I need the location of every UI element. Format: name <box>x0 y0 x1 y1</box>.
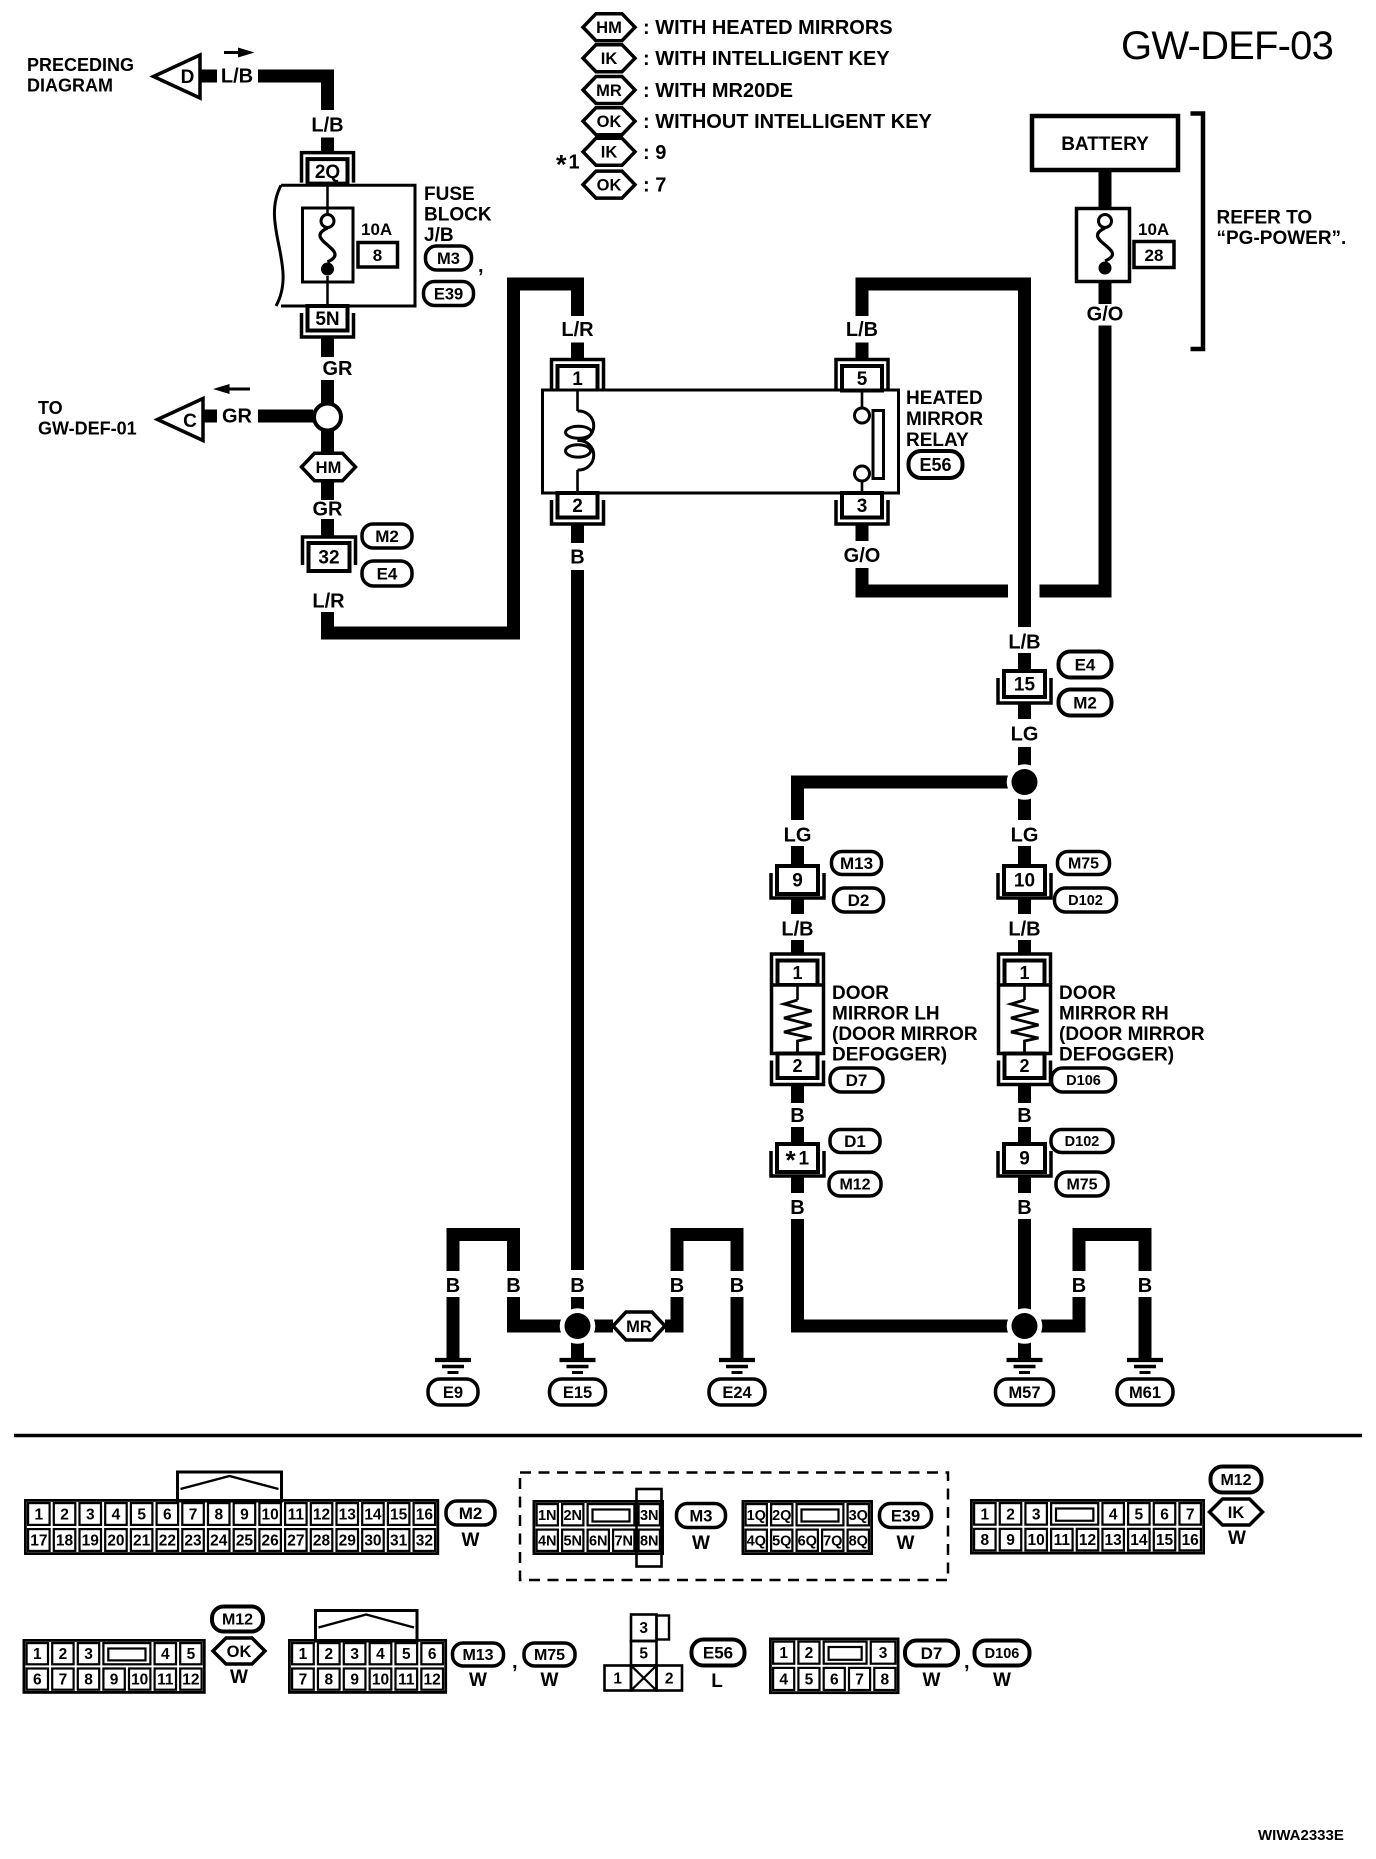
svg-text:M12: M12 <box>839 1177 870 1194</box>
svg-text:2: 2 <box>1006 1506 1015 1523</box>
svg-text:DEFOGGER): DEFOGGER) <box>832 1045 947 1066</box>
svg-text:M2: M2 <box>1073 694 1097 713</box>
svg-text:11: 11 <box>398 1672 415 1689</box>
svg-text:6: 6 <box>163 1507 172 1524</box>
svg-text:B: B <box>670 1275 684 1297</box>
svg-text:4: 4 <box>376 1646 385 1663</box>
svg-text:5Q: 5Q <box>772 1533 791 1549</box>
svg-text:8: 8 <box>214 1507 223 1524</box>
svg-text:D2: D2 <box>848 891 870 910</box>
svg-text:9: 9 <box>792 871 803 892</box>
svg-text:DIAGRAM: DIAGRAM <box>27 76 113 96</box>
svg-text:8: 8 <box>881 1671 890 1688</box>
svg-text:: 7: : 7 <box>643 175 666 197</box>
svg-text:D1: D1 <box>844 1132 866 1151</box>
svg-text:8Q: 8Q <box>849 1533 868 1549</box>
svg-text:14: 14 <box>1130 1532 1148 1549</box>
svg-text:10A: 10A <box>1138 220 1169 239</box>
svg-text:B: B <box>1072 1275 1086 1297</box>
svg-text:3: 3 <box>84 1646 93 1663</box>
svg-text:6: 6 <box>830 1671 839 1688</box>
svg-text:2: 2 <box>792 1056 802 1076</box>
svg-text:5: 5 <box>805 1671 814 1688</box>
svg-text:: WITHOUT INTELLIGENT KEY: : WITHOUT INTELLIGENT KEY <box>643 111 933 133</box>
svg-text:M2: M2 <box>459 1504 483 1523</box>
svg-text:1: 1 <box>35 1507 44 1524</box>
svg-text:G/O: G/O <box>844 545 881 567</box>
svg-text:12: 12 <box>313 1507 330 1524</box>
svg-text:: WITH HEATED MIRRORS: : WITH HEATED MIRRORS <box>643 17 893 39</box>
svg-text:M2: M2 <box>375 527 399 546</box>
svg-text:6: 6 <box>428 1646 437 1663</box>
svg-text:B: B <box>790 1197 804 1219</box>
svg-text:6: 6 <box>33 1672 42 1689</box>
svg-text:7N: 7N <box>614 1533 633 1549</box>
svg-text:L/B: L/B <box>1008 632 1040 654</box>
svg-text:(DOOR MIRROR: (DOOR MIRROR <box>832 1024 978 1045</box>
svg-text:,: , <box>512 1651 518 1673</box>
svg-text:MIRROR LH: MIRROR LH <box>832 1004 940 1025</box>
svg-text:GR: GR <box>222 406 253 428</box>
svg-text:L/B: L/B <box>846 319 878 341</box>
svg-text:LG: LG <box>784 825 812 847</box>
svg-text:OK: OK <box>597 113 622 131</box>
svg-text:7: 7 <box>189 1507 198 1524</box>
svg-text:10: 10 <box>131 1672 148 1689</box>
svg-text:MIRROR: MIRROR <box>906 409 983 430</box>
svg-text:12: 12 <box>424 1672 441 1689</box>
svg-text:: WITH INTELLIGENT KEY: : WITH INTELLIGENT KEY <box>643 48 890 70</box>
svg-text:4: 4 <box>161 1646 170 1663</box>
svg-text:3N: 3N <box>640 1508 659 1524</box>
svg-text:M57: M57 <box>1008 1384 1040 1402</box>
svg-text:D7: D7 <box>921 1644 943 1663</box>
svg-text:DOOR: DOOR <box>832 983 889 1004</box>
svg-text:22: 22 <box>159 1533 176 1550</box>
svg-text:L/B: L/B <box>781 919 813 941</box>
svg-text:5: 5 <box>1135 1506 1144 1523</box>
svg-text:11: 11 <box>1054 1532 1071 1549</box>
svg-text:16: 16 <box>416 1507 434 1524</box>
svg-text:B: B <box>570 1275 584 1297</box>
svg-text:M75: M75 <box>534 1647 565 1664</box>
svg-text:27: 27 <box>287 1533 304 1550</box>
svg-text:3: 3 <box>879 1645 888 1662</box>
svg-text:19: 19 <box>82 1533 100 1550</box>
svg-text:10A: 10A <box>361 220 392 239</box>
svg-text:E39: E39 <box>434 285 463 303</box>
svg-text:2: 2 <box>60 1507 69 1524</box>
svg-text:GR: GR <box>313 499 344 521</box>
svg-text:RELAY: RELAY <box>906 430 969 451</box>
svg-text:B: B <box>790 1275 804 1297</box>
svg-text:13: 13 <box>1105 1532 1123 1549</box>
svg-text:3: 3 <box>1032 1506 1041 1523</box>
svg-text:10: 10 <box>372 1672 389 1689</box>
svg-text:B: B <box>1017 1197 1031 1219</box>
svg-text:3: 3 <box>86 1507 95 1524</box>
svg-text:W: W <box>692 1533 710 1554</box>
svg-text:REFER TO: REFER TO <box>1217 208 1313 229</box>
svg-text:18: 18 <box>56 1533 74 1550</box>
svg-text:E15: E15 <box>563 1384 592 1402</box>
svg-text:1: 1 <box>799 1149 810 1170</box>
svg-text:10: 10 <box>262 1507 279 1524</box>
svg-text:4N: 4N <box>538 1533 557 1549</box>
svg-text:15: 15 <box>390 1507 408 1524</box>
svg-text:HM: HM <box>596 19 622 37</box>
svg-text:13: 13 <box>339 1507 357 1524</box>
svg-text:5: 5 <box>187 1646 196 1663</box>
svg-text:OK: OK <box>227 1643 252 1661</box>
svg-text:16: 16 <box>1182 1532 1200 1549</box>
svg-text:BATTERY: BATTERY <box>1061 134 1149 155</box>
svg-text:GR: GR <box>323 358 354 380</box>
svg-text:L/B: L/B <box>1008 919 1040 941</box>
svg-text:17: 17 <box>30 1533 47 1550</box>
svg-text:3Q: 3Q <box>849 1508 868 1524</box>
svg-text:9: 9 <box>1006 1532 1015 1549</box>
svg-text:2Q: 2Q <box>772 1508 791 1524</box>
svg-text:OK: OK <box>597 176 622 194</box>
svg-text:2Q: 2Q <box>315 162 340 183</box>
svg-text:10: 10 <box>1014 871 1035 892</box>
svg-text:5: 5 <box>137 1507 146 1524</box>
svg-text:2: 2 <box>665 1671 674 1688</box>
svg-text:2: 2 <box>805 1645 814 1662</box>
svg-text:32: 32 <box>416 1533 433 1550</box>
svg-text:6N: 6N <box>589 1533 608 1549</box>
svg-text:4: 4 <box>779 1671 788 1688</box>
svg-text:24: 24 <box>210 1533 228 1550</box>
svg-text:8: 8 <box>981 1532 990 1549</box>
svg-text:FUSE: FUSE <box>424 184 475 205</box>
svg-text:B: B <box>730 1275 744 1297</box>
svg-text:11: 11 <box>288 1507 305 1524</box>
svg-text:29: 29 <box>339 1533 357 1550</box>
svg-text:3: 3 <box>639 1620 648 1637</box>
svg-text:W: W <box>462 1530 480 1551</box>
svg-text:D102: D102 <box>1065 1134 1100 1150</box>
svg-text:HM: HM <box>316 459 342 477</box>
svg-text:L: L <box>711 1671 723 1692</box>
svg-text:W: W <box>1228 1528 1246 1549</box>
svg-text:D106: D106 <box>985 1646 1020 1662</box>
svg-text:15: 15 <box>1014 675 1036 696</box>
svg-text:D: D <box>181 67 195 88</box>
svg-text:LG: LG <box>1011 724 1039 746</box>
svg-text:20: 20 <box>107 1533 124 1550</box>
svg-text:7: 7 <box>855 1671 864 1688</box>
svg-text:W: W <box>469 1670 487 1691</box>
svg-text:IK: IK <box>601 144 618 162</box>
svg-text:M12: M12 <box>222 1612 253 1629</box>
svg-text:7Q: 7Q <box>823 1533 842 1549</box>
svg-text:9: 9 <box>350 1672 359 1689</box>
svg-text:28: 28 <box>313 1533 331 1550</box>
svg-text:1: 1 <box>779 1645 788 1662</box>
svg-text:8N: 8N <box>640 1533 659 1549</box>
svg-text:E9: E9 <box>443 1384 463 1402</box>
svg-text:E24: E24 <box>722 1384 752 1402</box>
svg-text:W: W <box>923 1670 941 1691</box>
svg-text:L/B: L/B <box>221 66 253 88</box>
svg-text:M3: M3 <box>690 1507 713 1525</box>
svg-text:5N: 5N <box>315 309 339 330</box>
svg-text:B: B <box>1017 1105 1031 1127</box>
svg-text:LG: LG <box>1011 825 1039 847</box>
svg-text:5N: 5N <box>563 1533 582 1549</box>
svg-text:1: 1 <box>33 1646 42 1663</box>
svg-text:MR: MR <box>596 82 622 100</box>
svg-text:6Q: 6Q <box>798 1533 817 1549</box>
svg-text:B: B <box>446 1275 460 1297</box>
svg-text:E56: E56 <box>703 1644 733 1663</box>
svg-text:5: 5 <box>402 1646 411 1663</box>
svg-text:M13: M13 <box>840 854 873 873</box>
svg-text:2: 2 <box>59 1646 68 1663</box>
svg-text:8: 8 <box>324 1672 333 1689</box>
svg-text:26: 26 <box>262 1533 280 1550</box>
svg-text:TO: TO <box>38 398 63 418</box>
svg-text:2: 2 <box>572 496 583 517</box>
svg-text:E39: E39 <box>891 1507 920 1525</box>
svg-text:7: 7 <box>1186 1506 1195 1523</box>
svg-text:10: 10 <box>1028 1532 1045 1549</box>
svg-text:B: B <box>1138 1275 1152 1297</box>
svg-text:2N: 2N <box>563 1508 582 1524</box>
svg-text:MIRROR RH: MIRROR RH <box>1059 1004 1169 1025</box>
svg-text:1: 1 <box>613 1671 622 1688</box>
svg-text:MR: MR <box>626 1318 652 1336</box>
svg-text:4: 4 <box>112 1507 121 1524</box>
svg-text:1: 1 <box>792 963 802 983</box>
svg-text:GW-DEF-01: GW-DEF-01 <box>38 419 137 439</box>
svg-text:M61: M61 <box>1129 1384 1161 1402</box>
svg-text:L/B: L/B <box>311 115 343 137</box>
svg-text:PRECEDING: PRECEDING <box>27 55 134 75</box>
svg-text:30: 30 <box>364 1533 381 1550</box>
svg-text:5: 5 <box>857 369 868 390</box>
svg-text:5: 5 <box>639 1646 648 1663</box>
svg-text:D106: D106 <box>1066 1073 1101 1089</box>
svg-text:M13: M13 <box>462 1647 493 1664</box>
svg-text:4Q: 4Q <box>747 1533 766 1549</box>
svg-text:BLOCK: BLOCK <box>424 205 492 226</box>
svg-text:9: 9 <box>240 1507 249 1524</box>
svg-text:IK: IK <box>601 50 618 68</box>
svg-text:B: B <box>1017 1275 1031 1297</box>
svg-text:1Q: 1Q <box>747 1508 766 1524</box>
svg-text:7: 7 <box>299 1672 308 1689</box>
svg-text:D102: D102 <box>1068 893 1103 909</box>
svg-text:W: W <box>993 1670 1011 1691</box>
svg-text:12: 12 <box>182 1672 199 1689</box>
svg-text:1: 1 <box>981 1506 990 1523</box>
svg-text:DOOR: DOOR <box>1059 983 1116 1004</box>
svg-text:C: C <box>183 411 197 432</box>
svg-text:DEFOGGER): DEFOGGER) <box>1059 1045 1174 1066</box>
svg-text:,: , <box>964 1651 970 1673</box>
svg-text:W: W <box>230 1667 248 1688</box>
svg-text:6: 6 <box>1160 1506 1169 1523</box>
svg-text:28: 28 <box>1145 246 1164 265</box>
svg-text:M12: M12 <box>1220 1472 1251 1489</box>
svg-text:4: 4 <box>1109 1506 1118 1523</box>
svg-text:WIWA2333E: WIWA2333E <box>1258 1827 1344 1844</box>
svg-text:L/R: L/R <box>312 591 345 613</box>
svg-text:8: 8 <box>84 1672 93 1689</box>
svg-text:: WITH MR20DE: : WITH MR20DE <box>643 80 793 102</box>
svg-text:IK: IK <box>1228 1504 1245 1522</box>
svg-text:1: 1 <box>1019 963 1029 983</box>
svg-text:W: W <box>897 1533 915 1554</box>
svg-text:25: 25 <box>236 1533 254 1550</box>
svg-text:31: 31 <box>390 1533 408 1550</box>
svg-text:9: 9 <box>1019 1149 1030 1170</box>
svg-text:M75: M75 <box>1066 1177 1097 1194</box>
svg-text:11: 11 <box>157 1672 174 1689</box>
svg-text:GW-DEF-03: GW-DEF-03 <box>1121 24 1333 68</box>
svg-text:8: 8 <box>373 246 382 265</box>
svg-text:: 9: : 9 <box>643 142 666 164</box>
svg-text:E56: E56 <box>919 455 951 475</box>
svg-text:12: 12 <box>1079 1532 1096 1549</box>
svg-text:1: 1 <box>299 1646 308 1663</box>
svg-text:M75: M75 <box>1068 856 1099 873</box>
svg-text:J/B: J/B <box>424 225 454 246</box>
svg-text:*: * <box>786 1145 797 1175</box>
svg-text:E4: E4 <box>1075 656 1096 675</box>
svg-text:L/R: L/R <box>561 319 594 341</box>
svg-text:B: B <box>790 1105 804 1127</box>
svg-text:21: 21 <box>133 1533 151 1550</box>
svg-text:7: 7 <box>59 1672 68 1689</box>
svg-text:B: B <box>506 1275 520 1297</box>
svg-text:“PG-POWER”.: “PG-POWER”. <box>1217 228 1347 249</box>
svg-text:E4: E4 <box>377 565 398 584</box>
svg-text:G/O: G/O <box>1087 304 1124 326</box>
svg-text:2: 2 <box>1019 1056 1029 1076</box>
svg-text:3: 3 <box>350 1646 359 1663</box>
svg-text:,: , <box>478 255 484 277</box>
svg-text:D7: D7 <box>846 1071 868 1090</box>
svg-text:3: 3 <box>857 496 868 517</box>
svg-text:2: 2 <box>324 1646 333 1663</box>
svg-text:*: * <box>556 150 567 180</box>
svg-text:15: 15 <box>1156 1532 1174 1549</box>
svg-text:B: B <box>570 547 584 569</box>
svg-text:1N: 1N <box>538 1508 557 1524</box>
svg-text:(DOOR MIRROR: (DOOR MIRROR <box>1059 1024 1205 1045</box>
svg-text:1: 1 <box>572 369 583 390</box>
svg-text:HEATED: HEATED <box>906 388 983 409</box>
svg-text:14: 14 <box>364 1507 382 1524</box>
svg-text:9: 9 <box>110 1672 119 1689</box>
svg-text:M3: M3 <box>437 250 460 268</box>
svg-text:W: W <box>541 1670 559 1691</box>
svg-text:1: 1 <box>569 152 580 174</box>
svg-text:23: 23 <box>184 1533 202 1550</box>
svg-text:32: 32 <box>318 548 339 569</box>
